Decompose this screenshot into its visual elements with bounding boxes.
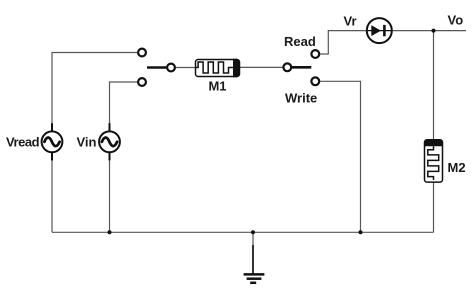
- wire Read terminal up to diode Vr: [320, 31, 366, 54]
- wire switch S1 pole to memristor M1: [176, 67, 196, 69]
- wire Write terminal over and down to rail: [320, 81, 361, 232]
- memristor M1 squiggle: [196, 62, 234, 73]
- wire diode Vr to output Vo: [393, 30, 466, 32]
- switch S2 lever: [292, 66, 311, 69]
- switch S2 Read terminal: [311, 50, 319, 58]
- svg-text:M2: M2: [448, 160, 466, 175]
- svg-text:Write: Write: [285, 91, 317, 106]
- wire Vin top: source up and over to switch S1 terminal B: [110, 82, 138, 131]
- switch S2 pole: [283, 63, 291, 71]
- node Vo junction dot: [432, 29, 436, 33]
- wire bottom ground rail: [52, 231, 434, 233]
- memristor M2 body: [425, 140, 443, 182]
- svg-text:Vr: Vr: [344, 14, 357, 29]
- voltage source Vin: [99, 123, 120, 160]
- switch S1 lever: [147, 66, 166, 69]
- switch S1 pole: [167, 64, 175, 72]
- svg-text:Read: Read: [284, 34, 316, 49]
- memristor M1 polarity bar: [233, 59, 240, 77]
- wire ground stub: [252, 232, 254, 247]
- memristor M2 squiggle: [428, 146, 439, 180]
- wire Vread top: source up and over to switch S1 terminal A: [52, 53, 137, 132]
- junction dot ground-rail: [251, 230, 255, 234]
- wire node Vo down to memristor M2 top: [433, 31, 435, 140]
- memristor M1 body: [196, 60, 240, 77]
- memristor M2 polarity bar: [425, 140, 443, 147]
- voltage source Vread: [42, 123, 63, 160]
- junction dot Write-rail: [359, 230, 363, 234]
- junction dot Vin-rail: [108, 230, 112, 234]
- switch S1 terminal A: [138, 49, 146, 57]
- wire memristor M1 to switch S2 pole: [240, 66, 283, 68]
- switch S1 terminal B: [138, 78, 146, 86]
- wire Vin bottom: source down to bottom rail: [109, 153, 111, 233]
- ground: [244, 245, 265, 283]
- svg-text:Vo: Vo: [448, 12, 464, 27]
- wire memristor M2 bottom down to rail: [433, 182, 435, 232]
- svg-text:Vread: Vread: [6, 135, 40, 150]
- svg-text:Vin: Vin: [77, 135, 97, 150]
- diode Vr: [367, 18, 392, 43]
- switch S2 Write terminal: [311, 77, 319, 85]
- wire Vread bottom: source down to bottom rail: [51, 153, 53, 233]
- svg-text:M1: M1: [208, 79, 226, 94]
